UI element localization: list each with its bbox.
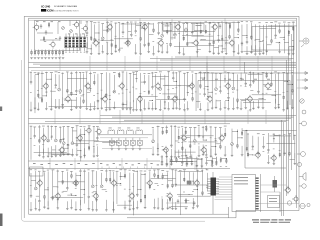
transistor Q3 <box>73 21 79 29</box>
transistor Q44 <box>110 179 116 187</box>
inter-band wires <box>50 56 272 170</box>
IF amp Q38 <box>85 126 91 134</box>
transistor Q41 <box>54 192 60 200</box>
band3 components <box>31 125 226 161</box>
band3 mid right parts <box>231 128 248 157</box>
transistor Q46 <box>146 179 152 187</box>
audio IC pins <box>208 179 220 193</box>
bus bundle upper <box>29 63 297 66</box>
transistor Q8 <box>141 23 147 31</box>
band3 labels <box>30 125 227 147</box>
band1 resistor row R1-R10 <box>30 50 64 59</box>
right bus verticals <box>282 23 297 217</box>
note text line1 <box>252 219 291 220</box>
ext speaker jack <box>287 201 291 205</box>
transistor Q42 <box>72 179 78 187</box>
inner border <box>29 18 297 214</box>
audio IC IC3 <box>211 172 217 214</box>
transistor Q11 <box>192 39 198 47</box>
band2 components <box>30 71 294 114</box>
transistor Q20 <box>154 82 160 90</box>
transistor Q43 <box>92 192 98 200</box>
transistor Q7 <box>124 39 130 47</box>
band1 top wire <box>29 19 297 21</box>
band3 right box parts <box>247 133 296 165</box>
cap C90 dark <box>273 176 278 192</box>
transistor Q33 <box>200 146 206 154</box>
plug P3 <box>302 87 308 90</box>
transistor Q21 <box>171 95 177 103</box>
connector J1 text <box>234 177 248 184</box>
right box corners <box>245 131 297 169</box>
transistor Q26 <box>264 82 270 90</box>
note text line2 <box>253 222 290 223</box>
section box2 top <box>29 67 297 69</box>
meter M1 <box>300 99 304 103</box>
band4 sub box <box>30 167 44 176</box>
transistor Q1 <box>33 23 39 31</box>
band1 labels <box>86 21 295 44</box>
antenna jack <box>299 38 309 47</box>
fanout wires <box>215 177 233 200</box>
band2 sub box right <box>198 79 290 108</box>
sub box VR <box>268 196 280 208</box>
transistor Q23 <box>206 95 212 103</box>
transistor Q29 <box>58 146 64 154</box>
transistor Q30 <box>76 134 82 142</box>
ICOM logo <box>41 8 79 12</box>
band1 long verticals <box>107 19 225 57</box>
transistor Q28 <box>40 134 46 142</box>
section box3 top <box>29 123 231 125</box>
band2 sub wire right <box>198 62 302 88</box>
transistor Q31 <box>162 146 168 154</box>
jack J4 <box>299 121 306 126</box>
svg-text:SCHEMATIC DIAGRAM: SCHEMATIC DIAGRAM <box>54 5 77 8</box>
transistor Q6 <box>106 23 112 31</box>
diode matrix D1-D24 <box>65 37 86 47</box>
band1 left box interior <box>36 21 84 42</box>
transistor Q37 <box>270 154 276 162</box>
transistor Q13 <box>228 39 234 47</box>
outer border left <box>22 60 205 221</box>
transistor Q5 <box>92 39 98 47</box>
transistor Q18 <box>118 82 124 90</box>
IF amp Q39 <box>95 127 101 135</box>
transistor Q34 <box>218 134 224 142</box>
band4 components <box>30 169 211 215</box>
transistor Q14 <box>42 82 48 90</box>
divider labels <box>33 163 95 165</box>
scan artifact 1 <box>0 107 2 112</box>
diode matrix leads <box>65 34 85 53</box>
band1 right box <box>252 27 294 51</box>
transistor Q47 <box>166 192 172 200</box>
plug P2 <box>302 79 308 82</box>
transistor Q2 <box>49 40 55 48</box>
band4 right wires <box>256 185 299 212</box>
mic plug <box>299 184 306 188</box>
transistor Q4 <box>81 24 87 32</box>
band4 gap fill <box>162 196 196 210</box>
band4 labels <box>30 169 209 194</box>
speaker SP <box>299 173 306 181</box>
lamp PL1 <box>302 110 306 114</box>
band1 left box <box>35 21 80 51</box>
band1 components <box>86 21 297 57</box>
transistor Q24 <box>224 82 230 90</box>
diode matrix frame <box>65 37 88 48</box>
scan artifact 2 <box>0 214 3 227</box>
transistor Q17 <box>101 95 107 103</box>
transistor Q15 <box>64 95 70 103</box>
transistor Q9 <box>157 39 163 47</box>
svg-text:ICOM INCORPORATED TOKYO: ICOM INCORPORATED TOKYO <box>54 9 79 12</box>
plug P1 <box>302 72 308 75</box>
IF lower labels <box>100 163 159 165</box>
title IC-240 SCHEMATIC DIAGRAM <box>41 4 77 8</box>
section divider left <box>29 160 161 162</box>
transistor Q45 <box>128 192 134 200</box>
transistor Q19 <box>136 95 142 103</box>
transistor Q16 <box>84 82 90 90</box>
transistor Q40 <box>36 179 42 187</box>
transistor Q12 <box>211 23 217 31</box>
IF transformers T1-T5 <box>110 138 143 151</box>
band1 osc cluster <box>158 22 240 33</box>
svg-text:IC-240: IC-240 <box>41 4 50 8</box>
connector J1 box <box>232 175 256 212</box>
section box4 top <box>29 168 231 170</box>
jack J5 <box>297 152 305 157</box>
resistor array RA1 <box>187 181 192 185</box>
band3 lower strip <box>161 153 227 170</box>
IF lower ticks <box>102 167 152 169</box>
transistor Q32 <box>180 134 186 142</box>
transistor Q10 <box>174 23 180 31</box>
IF coils L1-L4 <box>108 128 143 134</box>
transistor Q48 <box>193 179 199 187</box>
transistor Q25 <box>246 95 252 103</box>
band2 wire top <box>31 70 294 72</box>
bus bundle mid <box>29 116 297 122</box>
page border <box>24 16 299 218</box>
bottom border steps <box>29 207 237 218</box>
connector J1 right rail <box>260 174 262 212</box>
band2 labels <box>30 71 294 95</box>
bus fan right upper <box>150 57 294 60</box>
transistor Q22 <box>188 82 194 90</box>
connector J1 pins <box>256 178 259 210</box>
power plug <box>299 203 310 208</box>
transistor Q50 <box>284 186 290 194</box>
transistor Q36 <box>254 151 260 159</box>
transistor Q51 <box>292 195 298 203</box>
jack J6 <box>298 163 302 167</box>
IF row wire <box>98 135 152 149</box>
